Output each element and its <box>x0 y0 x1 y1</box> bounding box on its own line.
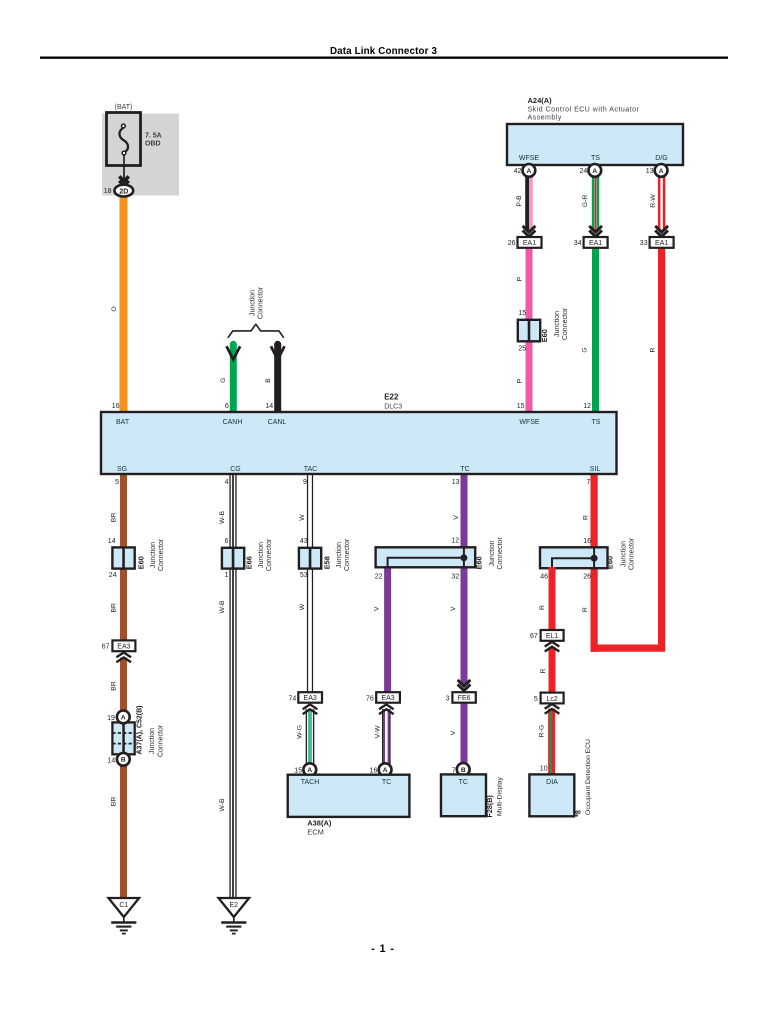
svg-text:Lc2: Lc2 <box>546 696 557 703</box>
svg-text:46: 46 <box>540 574 548 581</box>
svg-text:6: 6 <box>225 538 229 545</box>
svg-text:BR: BR <box>110 797 117 807</box>
svg-text:B: B <box>461 767 466 774</box>
svg-text:EA3: EA3 <box>117 644 130 651</box>
svg-text:24: 24 <box>580 168 588 175</box>
svg-text:SG: SG <box>117 466 127 473</box>
svg-text:18: 18 <box>104 188 112 195</box>
svg-text:(BAT): (BAT) <box>115 104 133 111</box>
svg-text:TS: TS <box>591 155 600 162</box>
svg-text:OBD: OBD <box>145 141 161 148</box>
svg-text:CANH: CANH <box>223 419 243 426</box>
svg-text:16: 16 <box>112 403 120 410</box>
svg-text:Data Link Connector 3: Data Link Connector 3 <box>330 46 438 57</box>
svg-text:V-W: V-W <box>375 725 382 738</box>
svg-text:V: V <box>453 515 460 520</box>
svg-text:4: 4 <box>225 479 229 486</box>
svg-text:JunctionConnector: JunctionConnector <box>489 537 504 570</box>
svg-text:76: 76 <box>366 696 374 703</box>
svg-text:26: 26 <box>508 240 516 247</box>
svg-text:G: G <box>220 378 227 383</box>
svg-text:WFSE: WFSE <box>519 155 540 162</box>
svg-text:Multi-Display: Multi-Display <box>496 776 503 816</box>
svg-text:JunctionConnector: JunctionConnector <box>620 537 635 570</box>
svg-text:12: 12 <box>583 403 591 410</box>
svg-text:14: 14 <box>108 538 116 545</box>
svg-text:P: P <box>517 378 524 383</box>
svg-text:A: A <box>592 168 597 175</box>
svg-text:W-G: W-G <box>297 725 304 739</box>
svg-text:43: 43 <box>300 538 308 545</box>
svg-text:1: 1 <box>225 572 229 579</box>
svg-text:R: R <box>650 347 657 352</box>
svg-text:E2: E2 <box>230 902 239 909</box>
svg-text:G-R: G-R <box>582 195 589 208</box>
svg-text:25: 25 <box>518 346 526 353</box>
svg-text:74: 74 <box>289 696 297 703</box>
svg-text:W-B: W-B <box>219 510 226 524</box>
svg-text:O: O <box>111 306 118 311</box>
svg-text:A38(A): A38(A) <box>307 819 332 828</box>
svg-text:22: 22 <box>375 574 383 581</box>
svg-text:EA3: EA3 <box>304 695 317 702</box>
svg-text:Occupant Detection ECU: Occupant Detection ECU <box>585 739 592 815</box>
svg-text:BR: BR <box>110 681 117 691</box>
svg-text:W-B: W-B <box>219 798 226 812</box>
svg-text:V: V <box>374 606 381 611</box>
svg-text:16: 16 <box>583 538 591 545</box>
svg-text:13: 13 <box>646 168 654 175</box>
svg-text:67: 67 <box>102 644 110 651</box>
svg-text:EA3: EA3 <box>381 695 394 702</box>
svg-text:53: 53 <box>300 572 308 579</box>
svg-text:W: W <box>299 514 306 521</box>
svg-text:ECM: ECM <box>307 828 324 837</box>
svg-text:3: 3 <box>446 696 450 703</box>
svg-text:JunctionConnector: JunctionConnector <box>150 538 165 571</box>
svg-text:15: 15 <box>518 310 526 317</box>
svg-text:TACH: TACH <box>301 779 320 786</box>
svg-text:34: 34 <box>574 240 582 247</box>
svg-text:D/G: D/G <box>655 155 667 162</box>
svg-text:W: W <box>299 603 306 610</box>
svg-text:Skid Control ECU with Actuator: Skid Control ECU with Actuator <box>528 107 640 114</box>
svg-text:BR: BR <box>110 603 117 613</box>
svg-text:R-G: R-G <box>539 725 546 737</box>
svg-text:TC: TC <box>459 779 468 786</box>
svg-text:19: 19 <box>107 715 115 722</box>
svg-text:JunctionConnector: JunctionConnector <box>249 286 264 319</box>
svg-text:12: 12 <box>451 538 459 545</box>
svg-text:Assembly: Assembly <box>528 115 562 122</box>
svg-text:E58: E58 <box>323 556 332 569</box>
svg-text:*8: *8 <box>573 810 582 817</box>
svg-text:F28(B): F28(B) <box>485 795 494 818</box>
svg-text:24: 24 <box>109 572 117 579</box>
svg-text:DLC3: DLC3 <box>384 403 402 410</box>
svg-text:G: G <box>582 347 589 352</box>
svg-text:P: P <box>517 276 524 281</box>
svg-text:67: 67 <box>530 633 538 640</box>
svg-text:33: 33 <box>640 240 648 247</box>
svg-text:13: 13 <box>452 479 460 486</box>
svg-text:EA1: EA1 <box>523 240 536 247</box>
svg-text:R-W: R-W <box>650 194 657 208</box>
svg-text:A37(A), C52(B): A37(A), C52(B) <box>137 705 144 754</box>
svg-text:E60: E60 <box>606 556 615 569</box>
svg-text:DIA: DIA <box>546 779 558 786</box>
svg-text:5: 5 <box>534 696 538 703</box>
svg-text:CG: CG <box>230 466 241 473</box>
svg-text:E60: E60 <box>540 329 549 342</box>
svg-text:JunctionConnector: JunctionConnector <box>149 724 164 757</box>
svg-text:EA1: EA1 <box>655 240 668 247</box>
svg-text:14: 14 <box>265 403 273 410</box>
svg-text:TAC: TAC <box>304 466 317 473</box>
svg-text:7. 5A: 7. 5A <box>145 133 162 140</box>
svg-text:E66: E66 <box>245 556 254 569</box>
svg-text:R: R <box>582 607 589 612</box>
svg-text:10: 10 <box>540 766 548 773</box>
svg-text:A: A <box>383 767 388 774</box>
svg-text:P-B: P-B <box>516 195 523 207</box>
svg-text:42: 42 <box>514 168 522 175</box>
svg-text:9: 9 <box>303 479 307 486</box>
svg-text:E22: E22 <box>384 393 399 402</box>
svg-text:BR: BR <box>110 513 117 523</box>
svg-text:15: 15 <box>517 403 525 410</box>
svg-text:V: V <box>450 606 457 611</box>
svg-text:SIL: SIL <box>590 466 601 473</box>
svg-text:WFSE: WFSE <box>519 419 540 426</box>
svg-text:A: A <box>527 168 532 175</box>
svg-text:R: R <box>540 668 547 673</box>
svg-text:E60: E60 <box>474 556 483 569</box>
svg-text:JunctionConnector: JunctionConnector <box>554 307 569 340</box>
svg-text:EA1: EA1 <box>589 240 602 247</box>
svg-text:TC: TC <box>460 466 469 473</box>
svg-text:26: 26 <box>583 574 591 581</box>
svg-text:TS: TS <box>592 419 601 426</box>
svg-text:- 1 -: - 1 - <box>371 943 395 955</box>
svg-text:7: 7 <box>586 479 590 486</box>
svg-text:FE6: FE6 <box>458 695 471 702</box>
svg-text:A: A <box>659 168 664 175</box>
svg-text:B: B <box>265 378 272 383</box>
svg-text:V: V <box>450 730 457 735</box>
svg-text:A: A <box>121 714 126 721</box>
svg-text:JunctionConnector: JunctionConnector <box>258 538 273 571</box>
svg-text:C1: C1 <box>119 902 128 909</box>
svg-text:TC: TC <box>382 779 391 786</box>
svg-text:B: B <box>121 757 126 764</box>
svg-text:E60: E60 <box>137 556 146 569</box>
svg-text:6: 6 <box>225 403 229 410</box>
svg-text:A24(A): A24(A) <box>528 96 553 105</box>
svg-text:W-B: W-B <box>219 600 226 614</box>
svg-text:R: R <box>539 605 546 610</box>
svg-text:5: 5 <box>115 479 119 486</box>
svg-text:14: 14 <box>108 757 116 764</box>
svg-text:EL1: EL1 <box>546 633 559 640</box>
svg-text:2D: 2D <box>119 188 128 195</box>
svg-text:A: A <box>307 767 312 774</box>
svg-text:R: R <box>583 515 590 520</box>
svg-text:JunctionConnector: JunctionConnector <box>336 538 351 571</box>
svg-text:32: 32 <box>451 574 459 581</box>
svg-text:CANL: CANL <box>268 419 287 426</box>
svg-text:BAT: BAT <box>116 419 130 426</box>
